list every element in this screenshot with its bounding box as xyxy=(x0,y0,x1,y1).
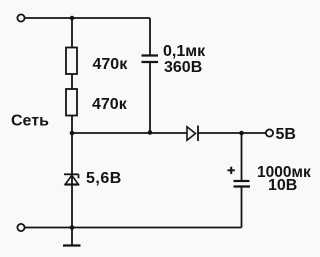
svg-text:5,6В: 5,6В xyxy=(86,170,122,187)
svg-text:5В: 5В xyxy=(276,126,296,143)
svg-text:470к: 470к xyxy=(92,96,128,113)
svg-text:360В: 360В xyxy=(164,59,202,76)
svg-text:0,1мк: 0,1мк xyxy=(163,43,206,60)
svg-text:470к: 470к xyxy=(93,56,129,73)
svg-text:10В: 10В xyxy=(268,177,297,194)
svg-text:Сеть: Сеть xyxy=(11,112,49,129)
